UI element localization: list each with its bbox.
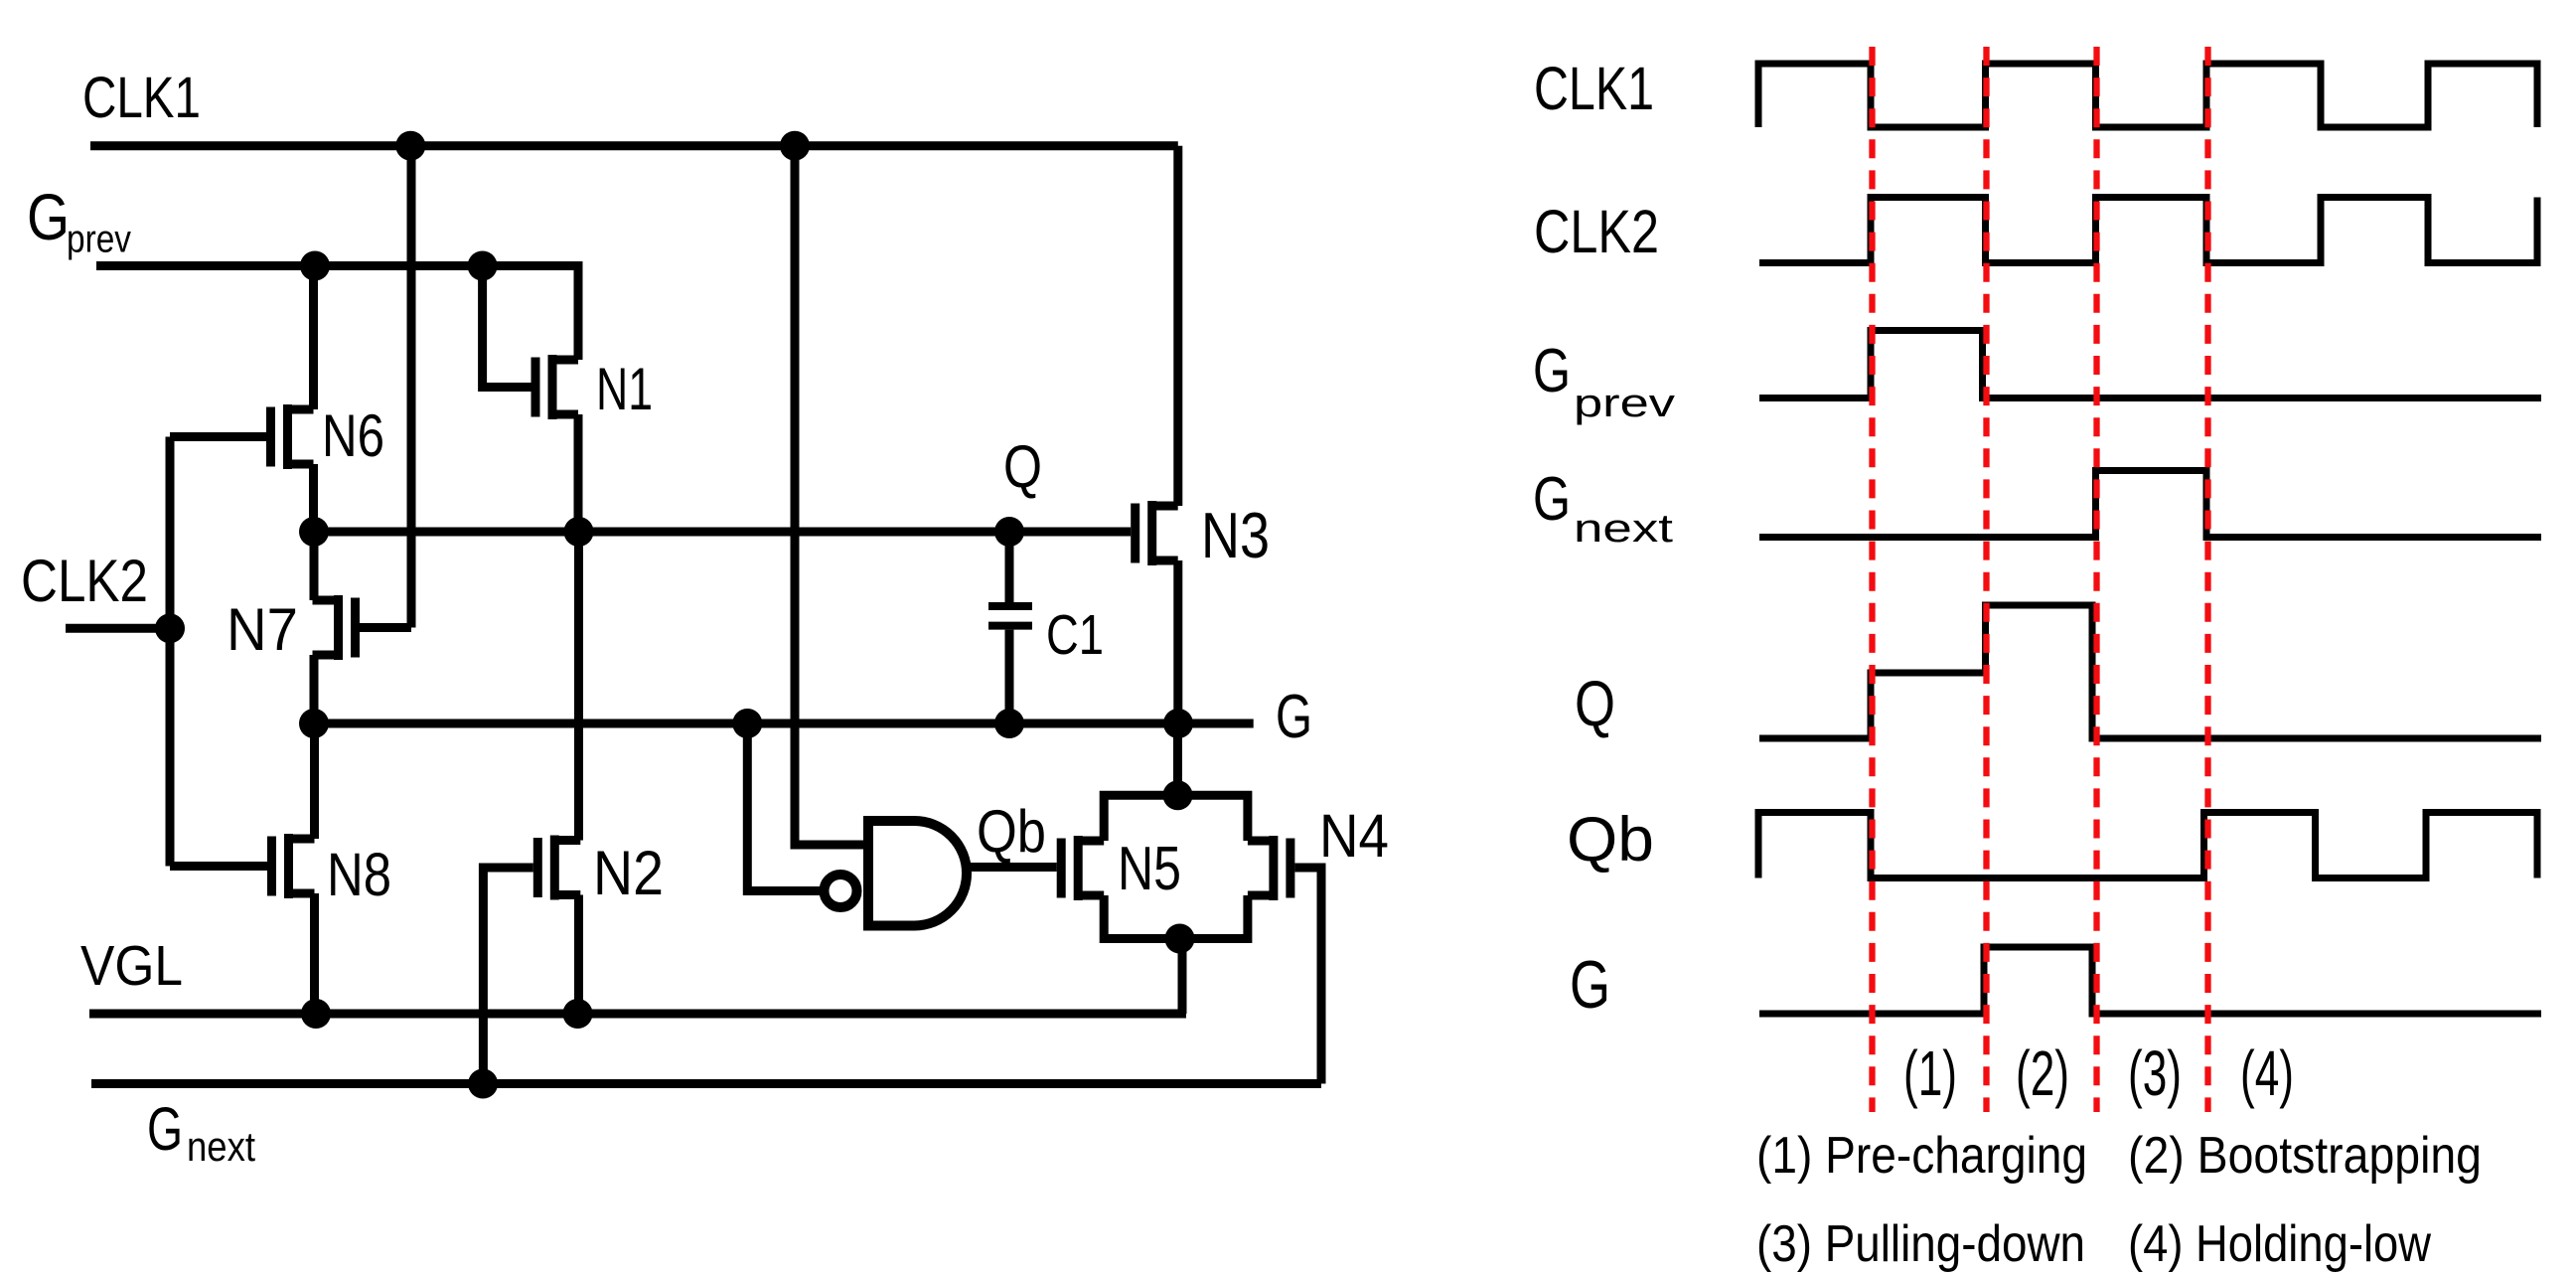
svg-text:next: next [1574, 507, 1673, 551]
wire N8 gate [170, 862, 267, 871]
node Q-J1 junction [299, 517, 329, 547]
svg-text:CLK1: CLK1 [82, 66, 201, 130]
node CLK2 junction [155, 613, 185, 643]
node CLK1-J2 junction [780, 131, 810, 161]
svg-text:G: G [1533, 337, 1571, 405]
wire CLK1 to N7 gate rail [407, 146, 416, 628]
svg-text:CLK2: CLK2 [21, 548, 148, 614]
svg-text:(2) Bootstrapping: (2) Bootstrapping [2128, 1127, 2482, 1185]
svg-text:N2: N2 [593, 839, 664, 908]
node Gprev-J2 junction [468, 251, 498, 281]
waveform CLK1 trace [1758, 64, 2537, 127]
node N5N4 bottom junction [1165, 924, 1195, 954]
svg-text:C1: C1 [1046, 603, 1104, 667]
wire NAND bubble input from G [747, 723, 824, 891]
node Q-J3 junction [994, 517, 1024, 547]
svg-text:prev: prev [1574, 382, 1675, 425]
svg-text:Q: Q [1575, 667, 1615, 739]
svg-text:N7: N7 [227, 596, 298, 663]
nand gate U1 body [868, 821, 967, 926]
node G-J2 junction [732, 709, 762, 738]
wire N2 source to VGL [574, 895, 583, 1015]
capacitor C1 plates [988, 602, 1032, 610]
node Q-J2 junction [564, 517, 594, 547]
node Gnext junction [468, 1069, 498, 1099]
transistor N1 [531, 358, 540, 417]
svg-text:G: G [1276, 683, 1312, 751]
wire N6 gate [170, 432, 266, 441]
wire Gprev bus [96, 266, 578, 361]
phase boundary dashed line 1 [1869, 47, 1875, 1112]
node G-J1 junction [299, 709, 329, 738]
svg-text:CLK1: CLK1 [1534, 55, 1654, 122]
phase boundary dashed line 2 [1983, 47, 1989, 1112]
node G-J3 junction [994, 709, 1024, 738]
waveform Qb trace [1758, 813, 2537, 878]
svg-text:N6: N6 [322, 402, 384, 469]
svg-text:(4) Holding-low: (4) Holding-low [2128, 1215, 2431, 1273]
node VGL-J2 junction [563, 999, 593, 1029]
svg-text:(1) Pre-charging: (1) Pre-charging [1756, 1127, 2087, 1185]
transistor N7 [351, 598, 360, 658]
wire N7 gate from CLK1 rail [360, 623, 411, 632]
transistor N3 [1131, 504, 1139, 563]
wire N2 drain to Q [574, 532, 583, 841]
svg-text:(2): (2) [2016, 1037, 2069, 1109]
nand U1 inverted input bubble [825, 875, 857, 907]
svg-text:N4: N4 [1319, 802, 1389, 870]
wire N5N4 bottom to VGL [1178, 939, 1187, 1015]
wire N4 gate to Gnext [1294, 868, 1321, 1084]
wire VGL bus [89, 1010, 1186, 1019]
svg-text:(3): (3) [2128, 1037, 2182, 1109]
node CLK1-J1 junction [395, 131, 425, 161]
node N5N4 top junction [1163, 780, 1193, 810]
waveform Gprev trace [1759, 331, 2541, 398]
svg-text:Qb: Qb [977, 798, 1046, 865]
net G wire [314, 719, 1254, 728]
wire N8 drain to G [310, 723, 319, 839]
wire NAND output Qb [968, 863, 1057, 872]
node G-J4 junction [1163, 709, 1193, 738]
waveform Q trace [1759, 605, 2541, 738]
svg-text:(1): (1) [1903, 1037, 1957, 1109]
wire NAND top input from CLK1 [795, 841, 864, 850]
svg-text:next: next [187, 1123, 255, 1170]
transistor N8 [267, 837, 276, 896]
svg-text:(3) Pulling-down: (3) Pulling-down [1756, 1215, 2085, 1273]
transistor N5 [1057, 839, 1066, 898]
svg-text:Q: Q [1003, 433, 1042, 500]
svg-text:Qb: Qb [1567, 805, 1654, 875]
wire N6 drain to Gprev [309, 266, 318, 410]
svg-text:G: G [1533, 465, 1571, 534]
svg-text:N1: N1 [596, 356, 653, 422]
waveform CLK2 trace [1759, 198, 2537, 263]
svg-text:G: G [27, 180, 70, 253]
wire N6 source to Q [309, 464, 318, 532]
svg-text:G: G [1570, 947, 1610, 1023]
svg-text:(4): (4) [2240, 1037, 2294, 1109]
capacitor C1 top wire [1005, 532, 1014, 602]
waveform Gnext trace [1759, 471, 2541, 538]
wire N7 drain to Q [310, 532, 319, 600]
wire N1 drain [574, 266, 583, 361]
node Gprev-J1 junction [300, 251, 330, 281]
capacitor C1 bottom wire [1005, 630, 1014, 723]
net Q wire [314, 528, 1131, 537]
phase boundary dashed line 4 [2204, 47, 2210, 1112]
wire CLK1 to NAND input rail [795, 146, 864, 845]
wire N3 source to G [1173, 560, 1182, 723]
svg-text:N3: N3 [1201, 499, 1270, 571]
wire N1 gate from Gprev [483, 266, 531, 388]
wire CLK2 stub [66, 624, 170, 633]
wire CLK1 bus [90, 141, 1178, 150]
svg-text:CLK2: CLK2 [1534, 198, 1659, 265]
wire N7 source to G [310, 655, 319, 723]
wire N3 drain from CLK1 [1173, 146, 1182, 506]
svg-text:prev: prev [67, 219, 131, 261]
phase boundary dashed line 3 [2093, 47, 2099, 1112]
wire Gnext bus [91, 1079, 1321, 1088]
wire N1 source to Q [574, 414, 583, 532]
wire N2 gate from Gnext [483, 868, 532, 1084]
wire CLK2 rail to N6 and N8 gates [166, 437, 175, 867]
svg-text:N5: N5 [1118, 835, 1181, 903]
svg-text:VGL: VGL [80, 934, 183, 998]
svg-text:G: G [147, 1095, 183, 1163]
node VGL-J1 junction [301, 999, 331, 1029]
transistor N6 [266, 407, 275, 467]
transistor N4 (mirrored) [1286, 839, 1294, 898]
wire N5N4 parallel loop [1104, 795, 1248, 938]
wire G to N5N4 block [1173, 723, 1182, 795]
transistor N2 [533, 838, 542, 897]
wire N8 source to VGL [310, 893, 319, 1014]
waveform G trace [1759, 947, 2541, 1014]
svg-text:N8: N8 [327, 841, 391, 908]
